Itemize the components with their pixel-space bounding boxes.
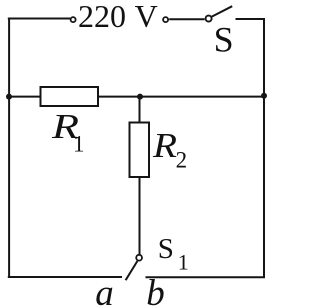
svg-text:a: a xyxy=(95,273,114,307)
junction dot left xyxy=(6,94,12,100)
wire bottom-right xyxy=(146,276,266,278)
terminal circle right of 220 V xyxy=(163,17,168,22)
svg-text:b: b xyxy=(146,273,165,307)
resistor R1 xyxy=(41,87,99,106)
wire bottom-left xyxy=(8,276,122,278)
svg-text:2: 2 xyxy=(176,148,188,173)
switch S1 blade xyxy=(126,261,138,280)
wire switch S to top-right corner xyxy=(236,18,266,20)
switch S1 pivot circle xyxy=(136,255,142,261)
svg-text:S: S xyxy=(158,233,174,265)
svg-text:V: V xyxy=(135,0,158,34)
switch S blade xyxy=(212,6,232,16)
junction dot right xyxy=(261,93,267,99)
svg-text:R: R xyxy=(152,126,177,165)
wire left vertical xyxy=(8,18,10,278)
wire between terminal and switch S xyxy=(169,18,204,20)
svg-text:1: 1 xyxy=(178,249,189,274)
svg-text:1: 1 xyxy=(73,131,85,156)
wire right vertical xyxy=(263,18,265,277)
switch S pivot circle xyxy=(206,16,212,22)
wire top-left horizontal xyxy=(8,18,71,20)
terminal circle left of 220 V xyxy=(71,17,76,22)
svg-text:S: S xyxy=(214,20,234,60)
svg-text:220: 220 xyxy=(78,0,126,34)
junction dot middle (R2 top) xyxy=(137,94,143,100)
resistor R2 xyxy=(130,123,150,178)
wire R2 branch vertical xyxy=(139,97,141,255)
wire middle horizontal xyxy=(9,96,264,98)
